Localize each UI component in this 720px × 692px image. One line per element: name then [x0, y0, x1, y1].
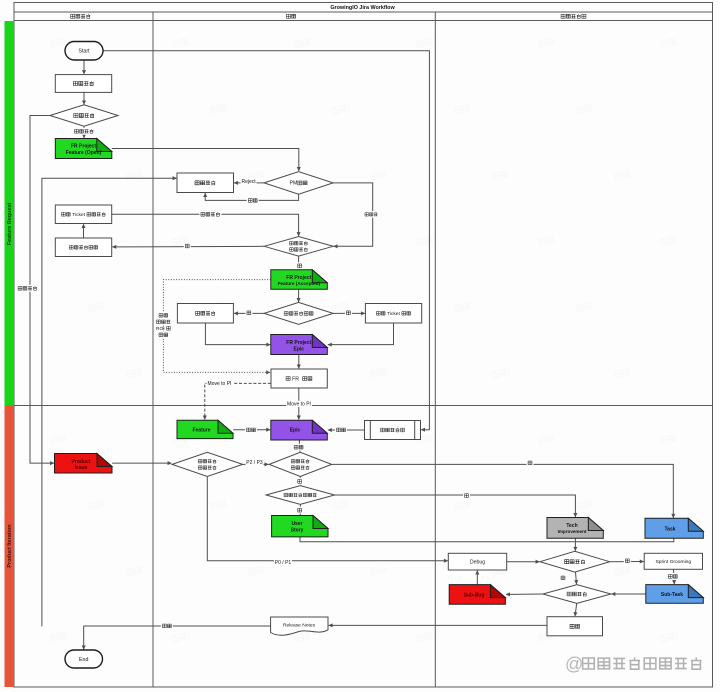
- svg-text:Start: Start: [78, 49, 90, 55]
- svg-text:Move to PI: Move to PI: [287, 402, 311, 408]
- svg-text:End: End: [79, 657, 88, 663]
- svg-text:Improvement: Improvement: [558, 529, 587, 534]
- svg-text:Move to PI: Move to PI: [208, 381, 232, 387]
- svg-text:Ticket: Ticket: [386, 311, 402, 317]
- svg-text:Sub-Bug: Sub-Bug: [464, 592, 485, 598]
- svg-text:Sprint Grooming: Sprint Grooming: [655, 559, 691, 565]
- svg-text:P0 / P1: P0 / P1: [275, 560, 292, 566]
- svg-text:FR Project: FR Project: [286, 275, 311, 281]
- svg-text:Product: Product: [72, 459, 91, 465]
- svg-text:Tech: Tech: [566, 523, 577, 529]
- svg-text:Release Notes: Release Notes: [283, 622, 316, 628]
- svg-text:Epic: Epic: [294, 346, 305, 352]
- svg-text:Ticket: Ticket: [71, 212, 87, 218]
- svg-text:GrowingIO Jira Workflow: GrowingIO Jira Workflow: [330, 5, 395, 11]
- svg-text:PM: PM: [290, 181, 298, 187]
- svg-text:Task: Task: [664, 527, 675, 533]
- svg-text:ROI: ROI: [156, 326, 165, 332]
- svg-text:P2 / P3: P2 / P3: [246, 460, 263, 466]
- svg-text:Feature: Feature: [192, 428, 210, 434]
- svg-text:Feature (Accepted): Feature (Accepted): [278, 281, 321, 286]
- svg-text:Epic: Epic: [290, 428, 301, 434]
- svg-text:Feature (Open): Feature (Open): [66, 150, 102, 156]
- svg-text:User: User: [291, 521, 302, 527]
- svg-text:FR: FR: [291, 376, 301, 382]
- svg-text:FR Project: FR Project: [71, 144, 96, 150]
- svg-text:Issue: Issue: [75, 465, 88, 471]
- svg-text:Feature Request: Feature Request: [7, 203, 13, 245]
- svg-text:Product Iteration: Product Iteration: [7, 524, 13, 567]
- svg-text:@: @: [565, 654, 583, 674]
- svg-text:Debug: Debug: [470, 559, 485, 565]
- svg-text:FR Project: FR Project: [286, 340, 311, 346]
- svg-text:Story: Story: [291, 528, 304, 534]
- svg-text:Sub-Task: Sub-Task: [661, 592, 683, 598]
- svg-text:Reject: Reject: [242, 179, 257, 185]
